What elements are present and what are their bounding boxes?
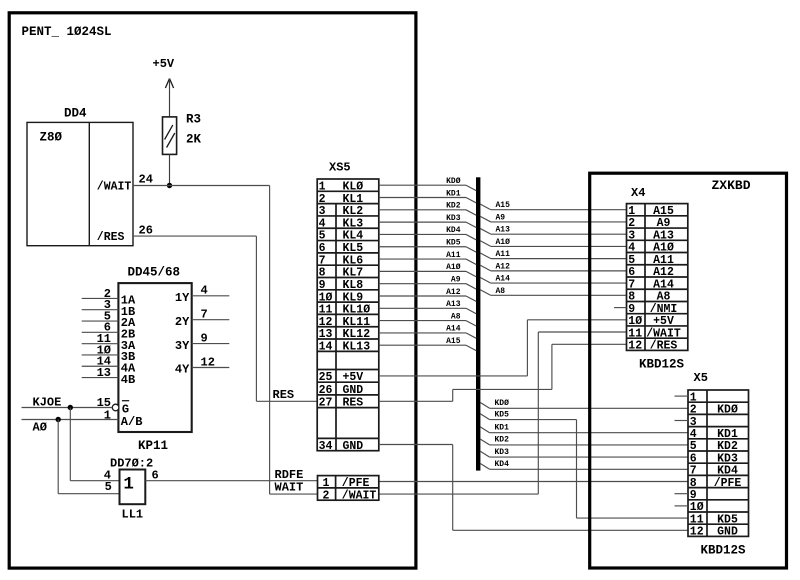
svg-text:A15: A15 xyxy=(446,337,461,346)
svg-text:1Ø: 1Ø xyxy=(628,315,642,328)
svg-text:A9: A9 xyxy=(451,275,461,284)
svg-text:DD4: DD4 xyxy=(64,107,87,121)
svg-text:KBD12S: KBD12S xyxy=(701,544,747,558)
svg-text:3Y: 3Y xyxy=(175,339,190,353)
svg-text:X5: X5 xyxy=(694,371,708,385)
wire RES vertical down xyxy=(255,236,257,401)
svg-text:5: 5 xyxy=(105,480,112,494)
svg-text:KP11: KP11 xyxy=(138,439,168,453)
wire bus to X4 pin 8 (A8) xyxy=(480,290,491,296)
svg-text:XS5: XS5 xyxy=(329,161,351,175)
svg-text:RES: RES xyxy=(343,397,364,410)
wire KP11 input 4B (pin 13) xyxy=(82,377,119,379)
DD4 internal divider xyxy=(88,122,90,245)
svg-text:KD2: KD2 xyxy=(495,436,510,445)
wire +5V: XS5 pin25 to X4 pin10 xyxy=(379,375,528,377)
svg-text:A14: A14 xyxy=(446,325,461,334)
svg-text:12: 12 xyxy=(201,355,215,369)
wire R3 bottom to /WAIT net xyxy=(169,154,171,185)
svg-text:A11: A11 xyxy=(496,250,511,259)
svg-text:1: 1 xyxy=(104,408,111,422)
svg-text:8: 8 xyxy=(319,267,326,280)
wire RES: XS5 pin27 right side jog to X4 pin12 xyxy=(379,400,453,402)
X5 row line 8 xyxy=(688,487,749,489)
svg-text:+5V: +5V xyxy=(153,57,175,71)
svg-text:A13: A13 xyxy=(496,226,511,235)
svg-text:3: 3 xyxy=(319,205,326,218)
svg-text:9: 9 xyxy=(319,279,326,292)
svg-text:7: 7 xyxy=(319,254,326,267)
connector XS5 outline xyxy=(317,179,379,451)
wire bus to X4 pin 6 (A12) xyxy=(480,265,491,271)
svg-text:KD3: KD3 xyxy=(446,214,461,223)
svg-text:26: 26 xyxy=(139,223,153,237)
XS5 row 34 line xyxy=(317,437,379,439)
svg-text:RES: RES xyxy=(273,388,295,402)
svg-text:KL1: KL1 xyxy=(343,193,364,206)
svg-text:DD45/68: DD45/68 xyxy=(128,266,181,280)
wire KP11 input 2B (pin 6) xyxy=(82,331,119,333)
X4 row line 4 xyxy=(627,252,688,254)
svg-text:5: 5 xyxy=(628,254,635,267)
svg-text:1: 1 xyxy=(123,474,134,494)
svg-text:2: 2 xyxy=(628,217,635,230)
IC U-DD4 (Z80 CPU) body xyxy=(27,122,133,245)
R3 diagonal hatch 1 xyxy=(165,125,173,140)
svg-text:KDØ: KDØ xyxy=(495,399,510,408)
svg-text:GND: GND xyxy=(343,440,364,453)
svg-text:KD4: KD4 xyxy=(717,465,738,478)
wire XS5 pin 5 to bus (KD4) xyxy=(379,233,466,235)
svg-text:A12: A12 xyxy=(446,288,461,297)
svg-text:13: 13 xyxy=(319,328,333,341)
KP11 inverted enable bubble xyxy=(112,404,119,411)
junction node A0 xyxy=(56,417,61,422)
X4 number-column divider xyxy=(644,204,646,351)
X4 row line 1 xyxy=(627,215,688,217)
svg-text:4: 4 xyxy=(319,217,326,230)
X4 row line 10 xyxy=(627,325,688,327)
XS5 rows 25-27 lines xyxy=(317,369,379,371)
wire bus to X5 (KD5) xyxy=(480,414,489,420)
svg-text:KL6: KL6 xyxy=(343,254,364,267)
wire KP11 input 1A (pin 2) xyxy=(82,297,119,299)
wire bus to X5 (KD2) xyxy=(480,439,489,445)
wire KP11 input 4A (pin 14) xyxy=(82,365,119,367)
svg-text:KLØ: KLØ xyxy=(343,181,364,194)
wire KP11 output 3Y (pin 9) xyxy=(192,343,230,345)
svg-text:A11: A11 xyxy=(653,254,674,267)
wire /WAIT vertical down xyxy=(269,186,271,495)
svg-text:KD1: KD1 xyxy=(495,424,510,433)
svg-text:A1Ø: A1Ø xyxy=(446,263,461,272)
svg-text:3: 3 xyxy=(690,416,697,429)
svg-text:KL7: KL7 xyxy=(343,267,364,280)
X4 row line 3 xyxy=(627,239,688,241)
svg-text:24: 24 xyxy=(139,172,153,186)
svg-text:KL8: KL8 xyxy=(343,279,364,292)
svg-text:ZXKBD: ZXKBD xyxy=(712,178,751,193)
svg-text:34: 34 xyxy=(319,440,333,453)
svg-text:/WAIT: /WAIT xyxy=(97,181,132,194)
wire /WAIT: connector pin2 to X4 pin11 xyxy=(379,493,539,495)
wire KP11 output 1Y (pin 4) xyxy=(192,295,230,297)
svg-text:7: 7 xyxy=(201,308,208,322)
svg-text:A/B: A/B xyxy=(121,415,143,429)
svg-text:11: 11 xyxy=(319,304,333,317)
wire XS5 pin 6 to bus (KD5) xyxy=(379,246,466,248)
svg-text:A1Ø: A1Ø xyxy=(653,242,674,255)
svg-text:/PFE: /PFE xyxy=(714,477,742,490)
wire XS5 pin 1 to bus (KD0) xyxy=(379,184,466,186)
wire /WAIT: DD4 pin24 to corner xyxy=(133,185,270,187)
svg-text:/WAIT: /WAIT xyxy=(342,489,377,502)
X5 row line 6 xyxy=(688,462,749,464)
wire KP11 output 2Y (pin 7) xyxy=(192,319,230,321)
wire KJOE branch down to LL1 pin4 xyxy=(69,408,71,481)
svg-text:+5V: +5V xyxy=(653,315,674,328)
svg-text:/NMI: /NMI xyxy=(650,303,678,316)
wire KP11 input 2A (pin 5) xyxy=(82,320,119,322)
svg-text:LL1: LL1 xyxy=(122,508,144,522)
XS5 number-column divider xyxy=(335,204,337,451)
svg-text:KJOE: KJOE xyxy=(33,395,62,409)
X4 row line 9 xyxy=(627,313,688,315)
X5 row line 7 xyxy=(688,474,749,476)
svg-text:KD5: KD5 xyxy=(446,239,461,248)
svg-text:8: 8 xyxy=(628,291,635,304)
svg-text:KL9: KL9 xyxy=(343,291,364,304)
svg-text:A8: A8 xyxy=(657,291,671,304)
svg-text:KL12: KL12 xyxy=(343,328,371,341)
svg-text:WAIT: WAIT xyxy=(275,481,304,495)
svg-text:A14: A14 xyxy=(496,275,511,284)
connector X5 outline xyxy=(688,390,749,536)
wire XS5 pin 9 to bus (A9) xyxy=(379,283,466,285)
svg-text:AØ: AØ xyxy=(33,420,47,434)
R3 diagonal hatch 2 xyxy=(167,133,175,148)
X5 row line 1 xyxy=(688,401,749,403)
svg-text:KD1: KD1 xyxy=(717,428,738,441)
svg-text:/RES: /RES xyxy=(97,231,125,244)
wire RES: DD4 pin26 to corner xyxy=(133,235,256,237)
wire XS5 pin 3 to bus (KD2) xyxy=(379,209,466,211)
wire XS5 pin 2 to bus (KD1) xyxy=(379,197,466,199)
svg-text:A15: A15 xyxy=(653,205,674,218)
svg-text:/WAIT: /WAIT xyxy=(646,327,681,340)
connector XP middle row line xyxy=(318,487,379,489)
X5 row line 10 xyxy=(688,511,749,513)
svg-text:A8: A8 xyxy=(496,287,506,296)
svg-text:KL4: KL4 xyxy=(343,230,364,243)
svg-text:KD1: KD1 xyxy=(446,189,461,198)
svg-text:A9: A9 xyxy=(496,213,506,222)
svg-text:5: 5 xyxy=(690,440,697,453)
wire KP11 input 3A (pin 11) xyxy=(82,343,119,345)
wire X5 pin1 stub xyxy=(675,395,689,397)
svg-text:27: 27 xyxy=(319,397,333,410)
wire KD5 vertical jog xyxy=(576,420,578,518)
svg-text:KDØ: KDØ xyxy=(717,404,738,417)
wire RES into XS5 pin27 left xyxy=(256,400,317,402)
svg-text:/PFE: /PFE xyxy=(342,477,370,490)
wire X5 pin3 stub xyxy=(675,420,689,422)
svg-text:26: 26 xyxy=(319,384,333,397)
wire bus to X4 pin 4 (A10) xyxy=(480,241,491,247)
svg-text:KD2: KD2 xyxy=(717,440,738,453)
X5 number-column divider xyxy=(706,390,708,536)
svg-text:A14: A14 xyxy=(653,278,674,291)
svg-text:2: 2 xyxy=(319,193,326,206)
wire bus to X4 pin 5 (A11) xyxy=(480,253,491,259)
wire X5 pin10 stub xyxy=(675,505,689,507)
svg-text:A1Ø: A1Ø xyxy=(496,238,511,247)
wire XS5 pin 14 to bus (A15) xyxy=(379,344,466,346)
svg-text:KL13: KL13 xyxy=(343,341,371,354)
svg-text:KL5: KL5 xyxy=(343,242,364,255)
wire XS5 pin 7 to bus (A11) xyxy=(379,258,466,260)
svg-text:X4: X4 xyxy=(631,186,645,200)
svg-text:KD4: KD4 xyxy=(495,460,510,469)
svg-text:7: 7 xyxy=(690,465,697,478)
svg-text:1Ø: 1Ø xyxy=(690,501,704,514)
svg-text:12: 12 xyxy=(690,526,704,539)
resistor R3 body xyxy=(163,117,177,154)
svg-text:KBD12S: KBD12S xyxy=(639,358,685,372)
svg-text:6: 6 xyxy=(628,266,635,279)
wire /WAIT into connector pin2 xyxy=(270,493,318,495)
svg-text:A8: A8 xyxy=(451,312,461,321)
X5 row line 3 xyxy=(688,426,749,428)
svg-text:4B: 4B xyxy=(121,373,135,387)
svg-text:KD3: KD3 xyxy=(717,452,738,465)
frame: ZXKBD keyboard board outline xyxy=(590,173,787,568)
svg-text:GND: GND xyxy=(717,526,738,539)
wire bus to X4 pin 1 (A15) xyxy=(480,204,491,210)
junction node KJOE xyxy=(68,405,73,410)
svg-text:6: 6 xyxy=(690,452,697,465)
svg-text:KL3: KL3 xyxy=(343,217,364,230)
svg-text:Z8Ø: Z8Ø xyxy=(40,131,63,145)
wire bus to X5 (KD0) xyxy=(480,403,489,409)
wire bus to X5 (KD4) xyxy=(480,464,489,470)
wire bus to X4 pin 2 (A9) xyxy=(480,216,491,222)
wire RDFE: LL1 pin6 to connector pin1 xyxy=(145,480,317,482)
X4 row line 5 xyxy=(627,264,688,266)
svg-text:KD4: KD4 xyxy=(446,226,461,235)
svg-text:3: 3 xyxy=(628,229,635,242)
svg-text:A12: A12 xyxy=(653,266,674,279)
wire bus to X4 pin 7 (A14) xyxy=(480,277,491,283)
connector XS5 row lines (pins 1-14) xyxy=(317,190,379,192)
svg-text:6: 6 xyxy=(319,242,326,255)
X5 row line 11 xyxy=(688,523,749,525)
wire GND: XS5 pin34 to X5 pin12 xyxy=(379,444,453,446)
svg-text:GND: GND xyxy=(343,384,364,397)
wire X4 pin9 stub (/NMI) xyxy=(614,307,627,309)
svg-text:13: 13 xyxy=(97,366,111,380)
frame: PENT_1024SL board outline xyxy=(9,13,416,568)
X5 row line 2 xyxy=(688,413,749,415)
wire XS5 pin 12 to bus (A8) xyxy=(379,320,466,322)
wire X5 pin9 stub xyxy=(675,493,689,495)
IC DD45/68 (KP11) body xyxy=(118,283,191,432)
svg-text:9: 9 xyxy=(628,303,635,316)
svg-text:PENT_ 1Ø24SL: PENT_ 1Ø24SL xyxy=(22,25,112,39)
wire XS5 pin 10 to bus (A12) xyxy=(379,295,466,297)
svg-text:/RES: /RES xyxy=(650,340,678,353)
svg-text:25: 25 xyxy=(319,371,333,384)
svg-text:2K: 2K xyxy=(186,133,202,147)
connector X4 outline xyxy=(627,204,688,351)
X5 row line 9 xyxy=(688,499,749,501)
connector XP (/PFE /WAIT) outline xyxy=(318,476,379,501)
svg-text:1: 1 xyxy=(319,181,326,194)
wire XS5 pin 4 to bus (KD3) xyxy=(379,221,466,223)
svg-text:1Ø: 1Ø xyxy=(319,291,333,304)
wire bus to X5 (KD3) xyxy=(480,451,489,457)
svg-text:12: 12 xyxy=(628,340,642,353)
svg-text:4: 4 xyxy=(201,284,208,298)
svg-text:KL1Ø: KL1Ø xyxy=(343,304,371,317)
X4 row line 11 xyxy=(627,337,688,339)
svg-text:A13: A13 xyxy=(653,229,674,242)
X4 row line 7 xyxy=(627,288,688,290)
svg-text:+5V: +5V xyxy=(343,371,364,384)
svg-text:5: 5 xyxy=(319,230,326,243)
svg-text:4: 4 xyxy=(690,428,697,441)
svg-text:2: 2 xyxy=(690,404,697,417)
svg-text:1: 1 xyxy=(628,205,635,218)
wire XS5 pin 13 to bus (A14) xyxy=(379,332,466,334)
svg-text:A15: A15 xyxy=(496,201,511,210)
wire KP11 output 4Y (pin 12) xyxy=(192,367,230,369)
svg-text:KD3: KD3 xyxy=(495,448,510,457)
svg-text:A12: A12 xyxy=(496,262,511,271)
svg-text:2: 2 xyxy=(323,489,330,502)
wire net A0 to KP11 pin1 xyxy=(22,419,119,421)
X5 row line 4 xyxy=(688,438,749,440)
svg-text:A13: A13 xyxy=(446,300,461,309)
svg-text:9: 9 xyxy=(690,489,697,502)
wire bus to X4 pin 3 (A13) xyxy=(480,229,491,235)
wire KP11 input 3B (pin 10) xyxy=(82,354,119,356)
svg-text:R3: R3 xyxy=(186,113,201,127)
svg-text:11: 11 xyxy=(690,513,704,526)
svg-text:4Y: 4Y xyxy=(175,363,190,377)
svg-text:12: 12 xyxy=(319,316,333,329)
connector XP divider xyxy=(335,476,337,501)
svg-text:KL2: KL2 xyxy=(343,205,364,218)
svg-text:14: 14 xyxy=(319,341,333,354)
X4 row line 6 xyxy=(627,276,688,278)
wire KP11 input 1B (pin 3) xyxy=(82,309,119,311)
bus: address/data bus (thick vertical) xyxy=(476,177,480,470)
svg-text:11: 11 xyxy=(628,327,642,340)
wire +5V arrow stem to R3 top xyxy=(169,79,171,117)
wire bus to X5 (KD1) xyxy=(480,427,489,433)
svg-text:4: 4 xyxy=(628,242,635,255)
svg-text:A11: A11 xyxy=(446,251,461,260)
wire A0 branch down to LL1 pin5 xyxy=(57,420,59,494)
wire /PFE: connector pin1 to X5 pin8 xyxy=(379,481,688,483)
svg-text:KDØ: KDØ xyxy=(446,177,461,186)
svg-text:KD5: KD5 xyxy=(495,410,510,419)
svg-text:9: 9 xyxy=(201,331,208,345)
wire net KJOE to KP11 pin15 xyxy=(22,407,113,409)
X4 row line 2 xyxy=(627,227,688,229)
svg-text:1: 1 xyxy=(690,391,697,404)
gate LL1 (DD70:2) body xyxy=(120,470,146,505)
svg-text:2Y: 2Y xyxy=(175,315,190,329)
svg-text:8: 8 xyxy=(690,477,697,490)
svg-text:KD2: KD2 xyxy=(446,202,461,211)
svg-text:KD5: KD5 xyxy=(717,513,738,526)
svg-text:1: 1 xyxy=(323,477,330,490)
wire XS5 pin 8 to bus (A10) xyxy=(379,270,466,272)
X4 row line 8 xyxy=(627,300,688,302)
svg-text:7: 7 xyxy=(628,278,635,291)
wire XS5 pin 11 to bus (A13) xyxy=(379,307,466,309)
junction node R3-/WAIT xyxy=(167,183,172,188)
svg-text:1Y: 1Y xyxy=(175,291,190,305)
X5 row line 5 xyxy=(688,450,749,452)
svg-text:KL11: KL11 xyxy=(343,316,371,329)
svg-text:A9: A9 xyxy=(657,217,671,230)
power +5V arrow head xyxy=(165,79,169,89)
